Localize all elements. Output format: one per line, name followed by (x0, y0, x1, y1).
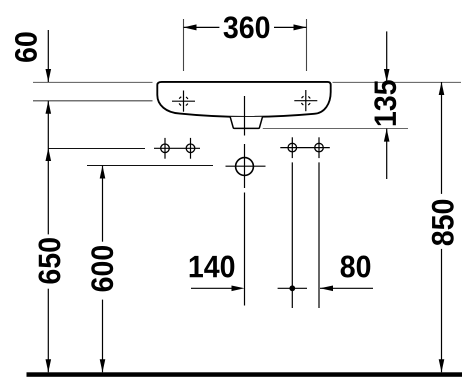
faucet hole right crosshair (294, 90, 317, 111)
arrow 850 down (439, 359, 445, 372)
drain circle (236, 158, 254, 176)
label 135 (374, 80, 396, 125)
arrow 600 up (100, 166, 106, 179)
label 360 (224, 16, 270, 38)
arrow 600 down (100, 359, 106, 372)
dimension 140 line (191, 287, 232, 289)
dimension 600 stem (102, 166, 104, 373)
tap hole circle L1 (161, 144, 170, 153)
faucet hole left crosshair (172, 91, 195, 112)
drain outlet (230, 117, 262, 129)
dimension 80 short line + dot (278, 287, 307, 289)
extension line rim level right (333, 81, 462, 83)
dot marker 80 (289, 285, 295, 291)
dimension 850 stem (441, 82, 443, 372)
label 650 (38, 238, 60, 283)
tap hole circle R1 (288, 143, 297, 152)
tap hole circle R2 (315, 143, 324, 152)
arrow 360 left (184, 24, 197, 30)
dimension 650 stem (47, 101, 49, 373)
dimension 60 stem (47, 30, 49, 82)
extension line below drain (140 dim) (244, 193, 246, 306)
label 600 (91, 246, 113, 291)
dimension 135 stems (386, 31, 388, 179)
arrow 140 right (232, 286, 245, 292)
centerline above drain (244, 96, 246, 136)
label 850 (432, 200, 454, 246)
extension line below tap R1 (291, 162, 293, 308)
arrow 360 right (294, 24, 307, 30)
arrow 60 up (46, 101, 52, 114)
tap holes left crosshair (154, 138, 200, 159)
label 60 (15, 32, 37, 62)
drain crosshair horizontal (226, 165, 266, 167)
label 80 (341, 256, 371, 278)
extension line top-left (basin rim level) (33, 19, 461, 129)
arrow 135 down (384, 69, 390, 82)
arrow 650 up (46, 148, 52, 161)
tap hole circle L2 (186, 144, 195, 153)
arrow 135 up (384, 129, 390, 142)
extension line left 60-lower (33, 100, 153, 102)
arrow 80 left (320, 286, 333, 292)
extension line below tap R2 (318, 162, 320, 308)
basin outline (157, 82, 330, 117)
arrow 850 up (439, 82, 445, 95)
ground line (27, 372, 463, 377)
arrow 650 down (46, 359, 52, 372)
drain crosshair vertical (244, 144, 246, 188)
dimension 80 line (320, 287, 373, 289)
extension line 650 level (48, 148, 145, 150)
extension line 360 left (183, 19, 185, 71)
label 140 (190, 256, 235, 278)
extension line 135 level (outlet bottom) (263, 128, 408, 130)
extension line 600 level (87, 165, 213, 167)
tap holes right crosshair (280, 137, 330, 158)
extension line 360 right (306, 19, 308, 71)
dimension 360 line (184, 26, 307, 28)
arrow 60 down (46, 69, 52, 82)
